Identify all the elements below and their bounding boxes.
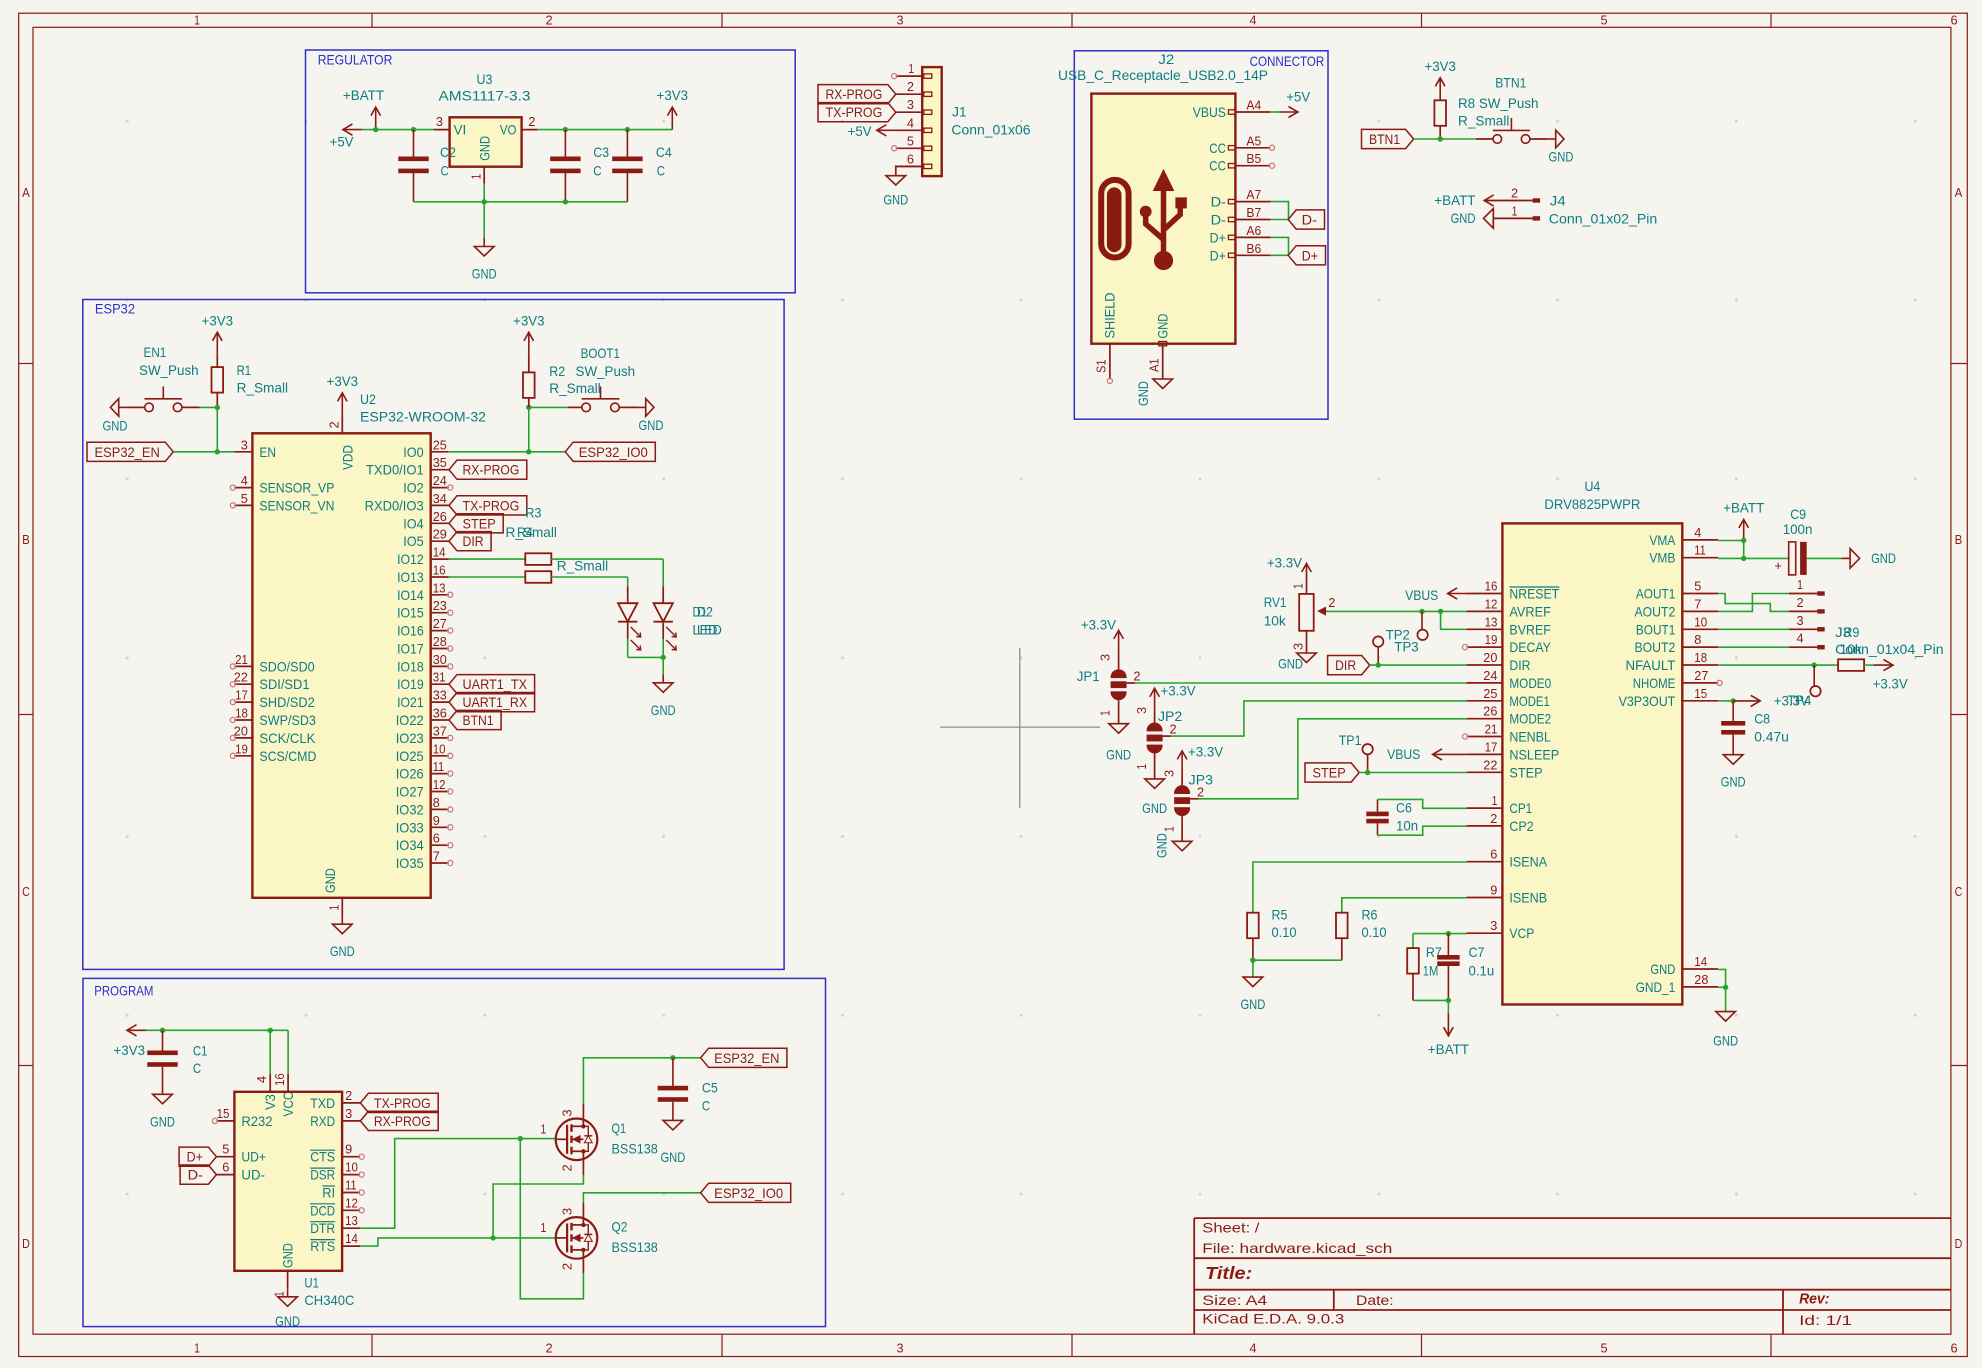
U2 pin 5 (SENSOR_VN) [234, 504, 252, 506]
U2 pin 35 (TXD0/IO1) [431, 469, 449, 471]
U2 pin 27 (IO16) [431, 630, 449, 632]
svg-text:RXD: RXD [310, 1113, 335, 1129]
junction TP1/STEP [1365, 770, 1370, 775]
svg-text:C8: C8 [1754, 711, 1770, 727]
svg-text:1: 1 [1512, 203, 1518, 218]
svg-text:R5: R5 [1272, 907, 1288, 923]
U2 pin 30 (IO18) [431, 665, 449, 667]
svg-text:19: 19 [1485, 632, 1498, 647]
svg-text:+3V3: +3V3 [202, 312, 234, 328]
wire J1 pin 6 to GND [896, 166, 922, 175]
svg-text:A6: A6 [1246, 223, 1261, 238]
svg-text:BSS138: BSS138 [612, 1239, 658, 1255]
svg-text:4: 4 [907, 115, 914, 130]
svg-text:9: 9 [345, 1142, 352, 1157]
wire U4 V3P3OUT to +3.3V [1718, 700, 1733, 702]
faint grid dots [126, 120, 129, 123]
svg-text:STEP: STEP [1313, 765, 1346, 781]
global label TX-PROG at U1 TXD [360, 1093, 438, 1112]
svg-text:2: 2 [345, 1088, 352, 1103]
svg-text:+3.3V: +3.3V [1161, 683, 1197, 699]
svg-text:IO17: IO17 [397, 641, 424, 657]
svg-text:4: 4 [1249, 1341, 1256, 1356]
svg-text:VI: VI [454, 122, 467, 138]
U3 pin 3 (VI) [434, 129, 450, 131]
title block [1194, 1217, 1951, 1219]
svg-text:12: 12 [345, 1195, 358, 1210]
U2 pin 12 (IO27) [431, 791, 449, 793]
svg-text:IO23: IO23 [396, 730, 424, 746]
wire J2 D- pins to D- label [1270, 202, 1288, 220]
solder jumper JP2 [1147, 723, 1163, 754]
svg-text:R6: R6 [1362, 907, 1378, 923]
wire JP1 pin2 to U4 MODE0 [1127, 682, 1135, 684]
svg-text:14: 14 [1694, 954, 1707, 969]
svg-text:3: 3 [1134, 707, 1149, 714]
svg-text:VDD: VDD [340, 445, 356, 470]
wire R7/C7 bottom [1413, 999, 1448, 1001]
U4 pin 15 (V3P3OUT) [1682, 700, 1718, 702]
junction IO0/BOOT1 [526, 449, 531, 454]
+BATT power symbol [375, 107, 377, 130]
U2 pin 29 (IO5) [431, 540, 449, 542]
svg-text:C9: C9 [1790, 506, 1806, 522]
svg-text:13: 13 [1485, 614, 1498, 629]
junction GND bus center [482, 199, 487, 204]
wire BVREF branch [1441, 611, 1467, 629]
junction at C3 top [563, 127, 568, 132]
GND symbol right of BOOT1 [637, 406, 646, 408]
resistor R2 [523, 372, 535, 398]
svg-text:GND: GND [1278, 656, 1303, 672]
svg-text:D: D [1955, 1236, 1963, 1251]
svg-text:10: 10 [345, 1160, 358, 1175]
svg-text:D-: D- [1211, 212, 1227, 228]
svg-text:R9: R9 [1844, 624, 1860, 640]
svg-text:6: 6 [1490, 847, 1497, 862]
U4 pin 22 (STEP) [1467, 771, 1503, 773]
svg-text:8: 8 [1694, 632, 1701, 647]
global label TX-PROG at U2 pin 34 [449, 496, 527, 515]
svg-text:+3.3V: +3.3V [1188, 744, 1224, 760]
J2 pin A4 (VBUS) [1235, 111, 1270, 113]
U1 pin 4 (V3) top [269, 1074, 271, 1092]
svg-text:GND: GND [1871, 550, 1896, 566]
svg-text:7: 7 [433, 849, 440, 864]
svg-text:UART1_RX: UART1_RX [463, 694, 528, 710]
GND symbol under C8 [1723, 755, 1743, 765]
CONNECTOR section box [1074, 51, 1328, 419]
svg-text:IO27: IO27 [396, 784, 424, 800]
resistor R1 [212, 367, 224, 393]
GND symbol under U1 [287, 1289, 289, 1297]
svg-text:J4: J4 [1550, 193, 1566, 209]
svg-text:DTR: DTR [310, 1220, 335, 1236]
wire DIR label to U4 DIR [1370, 664, 1467, 666]
svg-text:0.10: 0.10 [1362, 924, 1387, 940]
test point TP2 [1421, 611, 1423, 629]
svg-text:NSLEEP: NSLEEP [1509, 746, 1559, 762]
svg-text:ESP32: ESP32 [95, 301, 135, 317]
svg-text:19: 19 [235, 741, 248, 756]
wire RV1 wiper to U4 AVREF [1327, 610, 1467, 612]
svg-text:+BATT: +BATT [343, 87, 385, 103]
svg-text:5: 5 [1600, 1341, 1607, 1356]
wire ESP32_EN to U2 EN pin [173, 451, 234, 453]
svg-text:9: 9 [1490, 883, 1497, 898]
regulator U3 body AMS1117-3.3 [450, 117, 522, 166]
svg-text:36: 36 [433, 706, 447, 721]
svg-text:100n: 100n [1783, 521, 1813, 537]
U2 pin 4 (SENSOR_VP) [234, 487, 252, 489]
+5V power symbol [343, 129, 362, 131]
svg-text:RX-PROG: RX-PROG [463, 462, 520, 478]
JP2 pin 1 to GND [1154, 754, 1156, 779]
svg-text:+3V3: +3V3 [657, 87, 689, 103]
svg-text:6: 6 [433, 831, 440, 846]
resistor R5 [1247, 913, 1259, 939]
connector J4 pin 1 [1493, 217, 1532, 219]
svg-text:R232: R232 [241, 1113, 272, 1129]
U2 pin 25 (IO0) [431, 451, 449, 453]
svg-text:2: 2 [545, 1341, 552, 1356]
LED D2 [627, 586, 629, 603]
junction RTS/Q1 source [490, 1235, 495, 1240]
svg-text:VCP: VCP [1509, 925, 1534, 941]
svg-text:U4: U4 [1584, 478, 1600, 494]
svg-text:4: 4 [1249, 13, 1256, 28]
svg-text:IO25: IO25 [396, 748, 424, 764]
J2 pin B5 (CC) [1235, 165, 1270, 167]
svg-text:C1: C1 [193, 1042, 208, 1058]
GND symbol under RV1 [1297, 653, 1317, 663]
U2 pin 3 (EN) [234, 451, 252, 453]
junction LED GND [661, 655, 666, 660]
resistor R9 [1838, 659, 1864, 671]
svg-text:File: hardware.kicad_sch: File: hardware.kicad_sch [1202, 1240, 1392, 1256]
svg-text:D+: D+ [1210, 247, 1226, 263]
svg-text:VO: VO [500, 122, 517, 138]
junction VMA [1741, 538, 1746, 543]
U1 pin 11 (RI) [342, 1192, 360, 1194]
U1 pin 5 (UD+) [216, 1156, 234, 1158]
svg-text:2: 2 [560, 1263, 575, 1270]
U4 pin 4 (VMA) [1682, 539, 1718, 541]
svg-text:+BATT: +BATT [1434, 192, 1476, 208]
svg-text:C5: C5 [702, 1080, 718, 1096]
svg-text:12: 12 [433, 777, 446, 792]
svg-text:2: 2 [1133, 669, 1140, 684]
svg-text:27: 27 [1694, 668, 1708, 683]
svg-text:NHOME: NHOME [1633, 675, 1676, 691]
wire to U1 VCC pin [287, 1030, 289, 1074]
svg-text:26: 26 [1483, 704, 1497, 719]
svg-text:R2: R2 [549, 363, 565, 379]
junction C7 bottom [1446, 998, 1451, 1003]
svg-text:B5: B5 [1246, 151, 1261, 166]
svg-text:6: 6 [1950, 1341, 1957, 1356]
VBUS power at U4 NRESET [1448, 593, 1467, 595]
svg-text:STEP: STEP [1509, 764, 1542, 780]
J2 pin B6 (D+) [1235, 254, 1270, 256]
svg-text:+3.3V: +3.3V [1081, 617, 1117, 633]
GND symbol under U4 [1716, 1012, 1736, 1022]
svg-text:GND: GND [275, 1313, 300, 1329]
svg-text:GND: GND [330, 943, 355, 959]
svg-text:GND: GND [322, 868, 338, 893]
svg-text:B: B [22, 532, 30, 547]
svg-text:10: 10 [433, 741, 446, 756]
svg-text:10: 10 [1694, 614, 1707, 629]
svg-text:14: 14 [345, 1231, 358, 1246]
svg-text:1: 1 [908, 61, 914, 76]
solder jumper JP3 [1174, 785, 1190, 816]
svg-text:DSR: DSR [310, 1167, 335, 1183]
svg-text:D+: D+ [1210, 229, 1226, 245]
svg-text:GND: GND [1142, 800, 1167, 816]
svg-text:16: 16 [433, 563, 446, 578]
U1 pin 15 (R232) [216, 1120, 234, 1122]
svg-text:Id: 1/1: Id: 1/1 [1799, 1312, 1852, 1328]
U3 pin 2 (VO) [522, 129, 538, 131]
svg-text:GND: GND [639, 417, 664, 433]
svg-text:3: 3 [241, 437, 248, 452]
U2 pin 6 (IO34) [431, 844, 449, 846]
wire BTN1 label to switch [1414, 138, 1477, 140]
svg-text:IO0: IO0 [403, 444, 424, 460]
U3 pin 1 (GND) [483, 167, 485, 184]
svg-text:21: 21 [235, 652, 248, 667]
wire R4 to LED D2 [551, 576, 627, 578]
+3V3 power above R2 [528, 332, 530, 355]
J1 pin 3 [896, 111, 922, 113]
svg-text:2: 2 [1511, 186, 1518, 201]
global label UART1_RX at U2 pin 33 [449, 693, 535, 712]
svg-text:USB_C_Receptacle_USB2.0_14P: USB_C_Receptacle_USB2.0_14P [1058, 67, 1268, 83]
svg-text:3: 3 [560, 1109, 575, 1116]
junction GND_1 [1723, 985, 1728, 990]
U2 pin 23 (IO15) [431, 612, 449, 614]
U4 NENBL no-connect [1463, 734, 1468, 739]
svg-text:B: B [1955, 532, 1963, 547]
svg-text:BOUT1: BOUT1 [1636, 621, 1676, 637]
svg-text:C: C [593, 163, 601, 179]
svg-text:+3V3: +3V3 [1424, 58, 1456, 74]
svg-text:CH340C: CH340C [304, 1292, 354, 1308]
svg-text:Q2: Q2 [612, 1219, 628, 1235]
svg-text:IO14: IO14 [397, 587, 424, 603]
wire EN1 to R1 bottom junction [182, 406, 200, 408]
U2 pin 21 (SDO/SD0) [234, 665, 252, 667]
svg-text:31: 31 [433, 670, 446, 685]
svg-text:3: 3 [896, 1341, 903, 1356]
svg-text:Title:: Title: [1205, 1263, 1252, 1283]
svg-text:IO22: IO22 [396, 712, 424, 728]
U4 pin 16 (NRESET) [1467, 593, 1503, 595]
svg-text:1: 1 [541, 1122, 547, 1137]
svg-text:Rev:: Rev: [1799, 1292, 1829, 1308]
global label RX-PROG at U1 RXD [360, 1111, 438, 1130]
junction DTR/Q2 source [518, 1136, 523, 1141]
USB logo pill [1101, 180, 1128, 258]
junction BOOT1 row [526, 405, 531, 410]
svg-text:CTS: CTS [310, 1149, 335, 1165]
wire U4 AOUT1 to J3 pin 2 (jog) [1718, 594, 1789, 612]
svg-text:R4: R4 [517, 524, 533, 540]
svg-text:NENBL: NENBL [1509, 729, 1551, 745]
resistor R4 [525, 571, 551, 583]
svg-text:U2: U2 [360, 391, 376, 407]
svg-text:27: 27 [433, 616, 447, 631]
svg-text:5: 5 [241, 491, 248, 506]
svg-text:VCC: VCC [280, 1092, 296, 1117]
svg-text:22: 22 [1483, 757, 1497, 772]
U2 pin 24 (IO2) [431, 487, 449, 489]
+3V3 power left (program) [127, 1029, 146, 1031]
svg-text:TX-PROG: TX-PROG [463, 497, 520, 513]
svg-text:J1: J1 [952, 104, 967, 120]
U4 pin 3 (VCP) [1467, 932, 1503, 934]
svg-text:STEP: STEP [463, 515, 496, 531]
svg-text:R3: R3 [526, 505, 542, 521]
svg-text:GND: GND [150, 1114, 175, 1130]
global label RX-PROG at U2 pin 35 [449, 460, 527, 479]
svg-text:A1: A1 [1146, 359, 1161, 373]
GND symbol at J4 pin 1 [1492, 209, 1494, 229]
U2 pin 31 (IO19) [431, 683, 449, 685]
svg-text:2: 2 [327, 421, 342, 428]
global label D- (program) [180, 1165, 216, 1184]
U4 pin 28 (GND_1) [1682, 986, 1718, 988]
U2 pin 10 (IO25) [431, 755, 449, 757]
svg-text:+3V3: +3V3 [513, 312, 545, 328]
U4 pin 10 (BOUT1) [1682, 628, 1718, 630]
svg-text:33: 33 [433, 688, 447, 703]
connector J3 pins [1789, 593, 1817, 595]
wire U2 IO0 to ESP32_IO0 label [449, 451, 566, 453]
U4 NHOME no-connect [1717, 680, 1722, 685]
global label ESP32_EN (program) [701, 1048, 787, 1067]
svg-text:C: C [1955, 884, 1963, 899]
U2 pin 1 (GND) bottom [341, 898, 343, 916]
LED D1 [662, 586, 664, 603]
svg-text:12: 12 [1485, 596, 1498, 611]
svg-text:EN1: EN1 [144, 344, 167, 360]
wire C6 to U4 CP2 [1378, 826, 1467, 835]
svg-text:R8 SW_Push: R8 SW_Push [1458, 95, 1539, 111]
U1 pin 10 (DSR) [342, 1174, 360, 1176]
wire U1 RTS to Q2 gate [360, 1238, 557, 1246]
transistor Q2 BSS138 [556, 1217, 598, 1259]
svg-text:3: 3 [1796, 613, 1803, 628]
svg-text:20: 20 [1483, 650, 1497, 665]
wire JP3 pin2 to U4 MODE2 [1190, 798, 1198, 800]
wire Q1 drain to ESP32_EN [582, 1104, 584, 1119]
svg-text:24: 24 [1483, 668, 1497, 683]
svg-text:CP1: CP1 [1509, 800, 1532, 816]
svg-text:2: 2 [1170, 722, 1177, 737]
svg-text:V3: V3 [262, 1094, 278, 1110]
junction C5 [670, 1055, 675, 1060]
U1 pin 16 (VCC) top [287, 1074, 289, 1092]
U2 pin 34 (RXD0/IO3) [431, 504, 449, 506]
global label STEP at U2 pin 26 [449, 514, 503, 533]
J2 pin A1 (GND) [1162, 344, 1164, 379]
U1 pin 12 (DCD) [342, 1209, 360, 1211]
junction NFAULT/TP4 [1812, 662, 1817, 667]
svg-text:TP1: TP1 [1339, 732, 1362, 748]
svg-text:GND: GND [1240, 996, 1265, 1012]
J2 pin A5 (CC) [1235, 147, 1270, 149]
J1 pin 1 no-connect [892, 74, 897, 79]
svg-text:AVREF: AVREF [1509, 603, 1551, 619]
svg-text:1: 1 [1492, 793, 1498, 808]
J1 pin 5 no-connect [892, 146, 897, 151]
svg-text:1: 1 [1162, 826, 1177, 832]
JP1 pin 3 + 3.3V power [1118, 653, 1120, 669]
+3.3V power at V3P3OUT [1733, 700, 1760, 702]
wire Q2 drain to ESP32_IO0 [582, 1203, 584, 1217]
svg-text:3: 3 [345, 1106, 352, 1121]
svg-text:14: 14 [433, 545, 446, 560]
svg-text:C: C [702, 1097, 710, 1113]
svg-text:BOUT2: BOUT2 [1635, 639, 1676, 655]
svg-text:18: 18 [1694, 650, 1707, 665]
U4 pin 21 (NENBL) [1467, 736, 1503, 738]
+3V3 power above R1 [216, 332, 218, 355]
svg-text:2: 2 [1796, 595, 1803, 610]
svg-text:BOOT1: BOOT1 [581, 345, 621, 361]
svg-text:D+: D+ [1302, 247, 1318, 263]
U4 DECAY no-connect [1463, 645, 1468, 650]
svg-text:GND: GND [1106, 747, 1131, 763]
global label DIR (driver) [1328, 656, 1370, 675]
svg-text:3: 3 [1490, 918, 1497, 933]
+3V3 power above U2 VDD [341, 393, 343, 416]
+BATT power below C7 [1447, 1013, 1449, 1035]
REGULATOR section box [306, 50, 796, 293]
svg-text:0.1u: 0.1u [1469, 963, 1495, 979]
U4 pin 13 (BVREF) [1467, 628, 1503, 630]
svg-text:34: 34 [433, 491, 447, 506]
U4 pin 9 (ISENB) [1467, 897, 1503, 899]
global label D- [1288, 210, 1324, 229]
U2 pin 8 (IO32) [431, 808, 449, 810]
GND symbol under J1 [886, 176, 906, 185]
U2 pin 2 (VDD) [341, 415, 343, 433]
svg-text:SHD/SD2: SHD/SD2 [259, 694, 314, 710]
svg-text:IO2: IO2 [403, 480, 424, 496]
svg-text:IO13: IO13 [397, 569, 424, 585]
svg-text:Date:: Date: [1356, 1292, 1394, 1308]
svg-text:IO5: IO5 [403, 533, 424, 549]
svg-text:3: 3 [560, 1208, 575, 1215]
svg-text:R_Small: R_Small [549, 380, 600, 396]
svg-text:C: C [22, 884, 30, 899]
capacitor C3 [564, 130, 566, 157]
svg-text:6: 6 [907, 151, 914, 166]
U4 pin 6 (ISENA) [1467, 861, 1503, 863]
svg-text:1: 1 [1797, 577, 1803, 592]
U1 pin 9 (CTS) [342, 1156, 360, 1158]
svg-text:4: 4 [254, 1076, 269, 1083]
U4 pin 27 (NHOME) [1682, 682, 1718, 684]
GND symbol under JP1 [1109, 724, 1129, 734]
capacitor C4 [626, 130, 628, 157]
U1 pin 3 (RXD) [342, 1120, 360, 1122]
svg-text:30: 30 [433, 652, 447, 667]
global label TX-PROG at J1 pin 3 [818, 103, 896, 122]
